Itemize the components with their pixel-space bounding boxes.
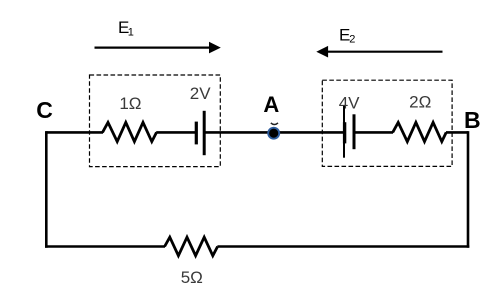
svg-text:A: A [263,92,279,117]
dashed box around E1 source [90,75,221,167]
svg-text:5Ω: 5Ω [181,268,203,287]
wire: R2 to B corner [446,131,468,134]
node A junction dot [268,128,279,139]
svg-text:2V: 2V [190,84,211,103]
svg-text:4V: 4V [339,93,360,112]
wire: between R1 and battery B1 [156,131,196,134]
resistor R2 (2 ohm) zigzag [393,122,447,141]
wire: battery B1 to node A [204,131,273,134]
label E2 [339,26,355,46]
label E1 [118,18,134,39]
wire: resistor R3 to bottom-right corner [217,245,469,248]
wire: bottom-left to resistor R3 [45,245,165,248]
svg-text:1: 1 [128,27,134,39]
wire: left vertical from C down [45,131,48,248]
svg-text:1Ω: 1Ω [119,94,141,113]
battery B2 (4V) long positive plate with thick mid [343,106,346,158]
resistor R3 (5 ohm) zigzag [165,237,218,256]
wire: node A to battery B2 [274,131,344,134]
arrow E2 (current direction, pointing left) [316,46,442,58]
svg-text:C: C [36,97,53,123]
svg-text:2Ω: 2Ω [409,93,431,112]
breve mark above node A [271,123,278,125]
wire: top-left lead from C corner to resistor R1 [46,131,103,134]
dashed box around E2 source [322,80,452,166]
battery B2 (4V) right plate [353,114,356,149]
svg-text:2: 2 [349,34,355,46]
wire: battery B2 to resistor R2 [354,131,393,134]
battery B1 (2V) short negative plate [195,122,198,145]
arrow E1 (current direction, pointing right) [95,42,221,54]
battery B1 (2V) long positive plate [203,111,206,155]
wire: right vertical from B down [467,131,470,248]
resistor R1 (1 ohm) zigzag [103,122,157,141]
svg-text:B: B [464,107,481,133]
